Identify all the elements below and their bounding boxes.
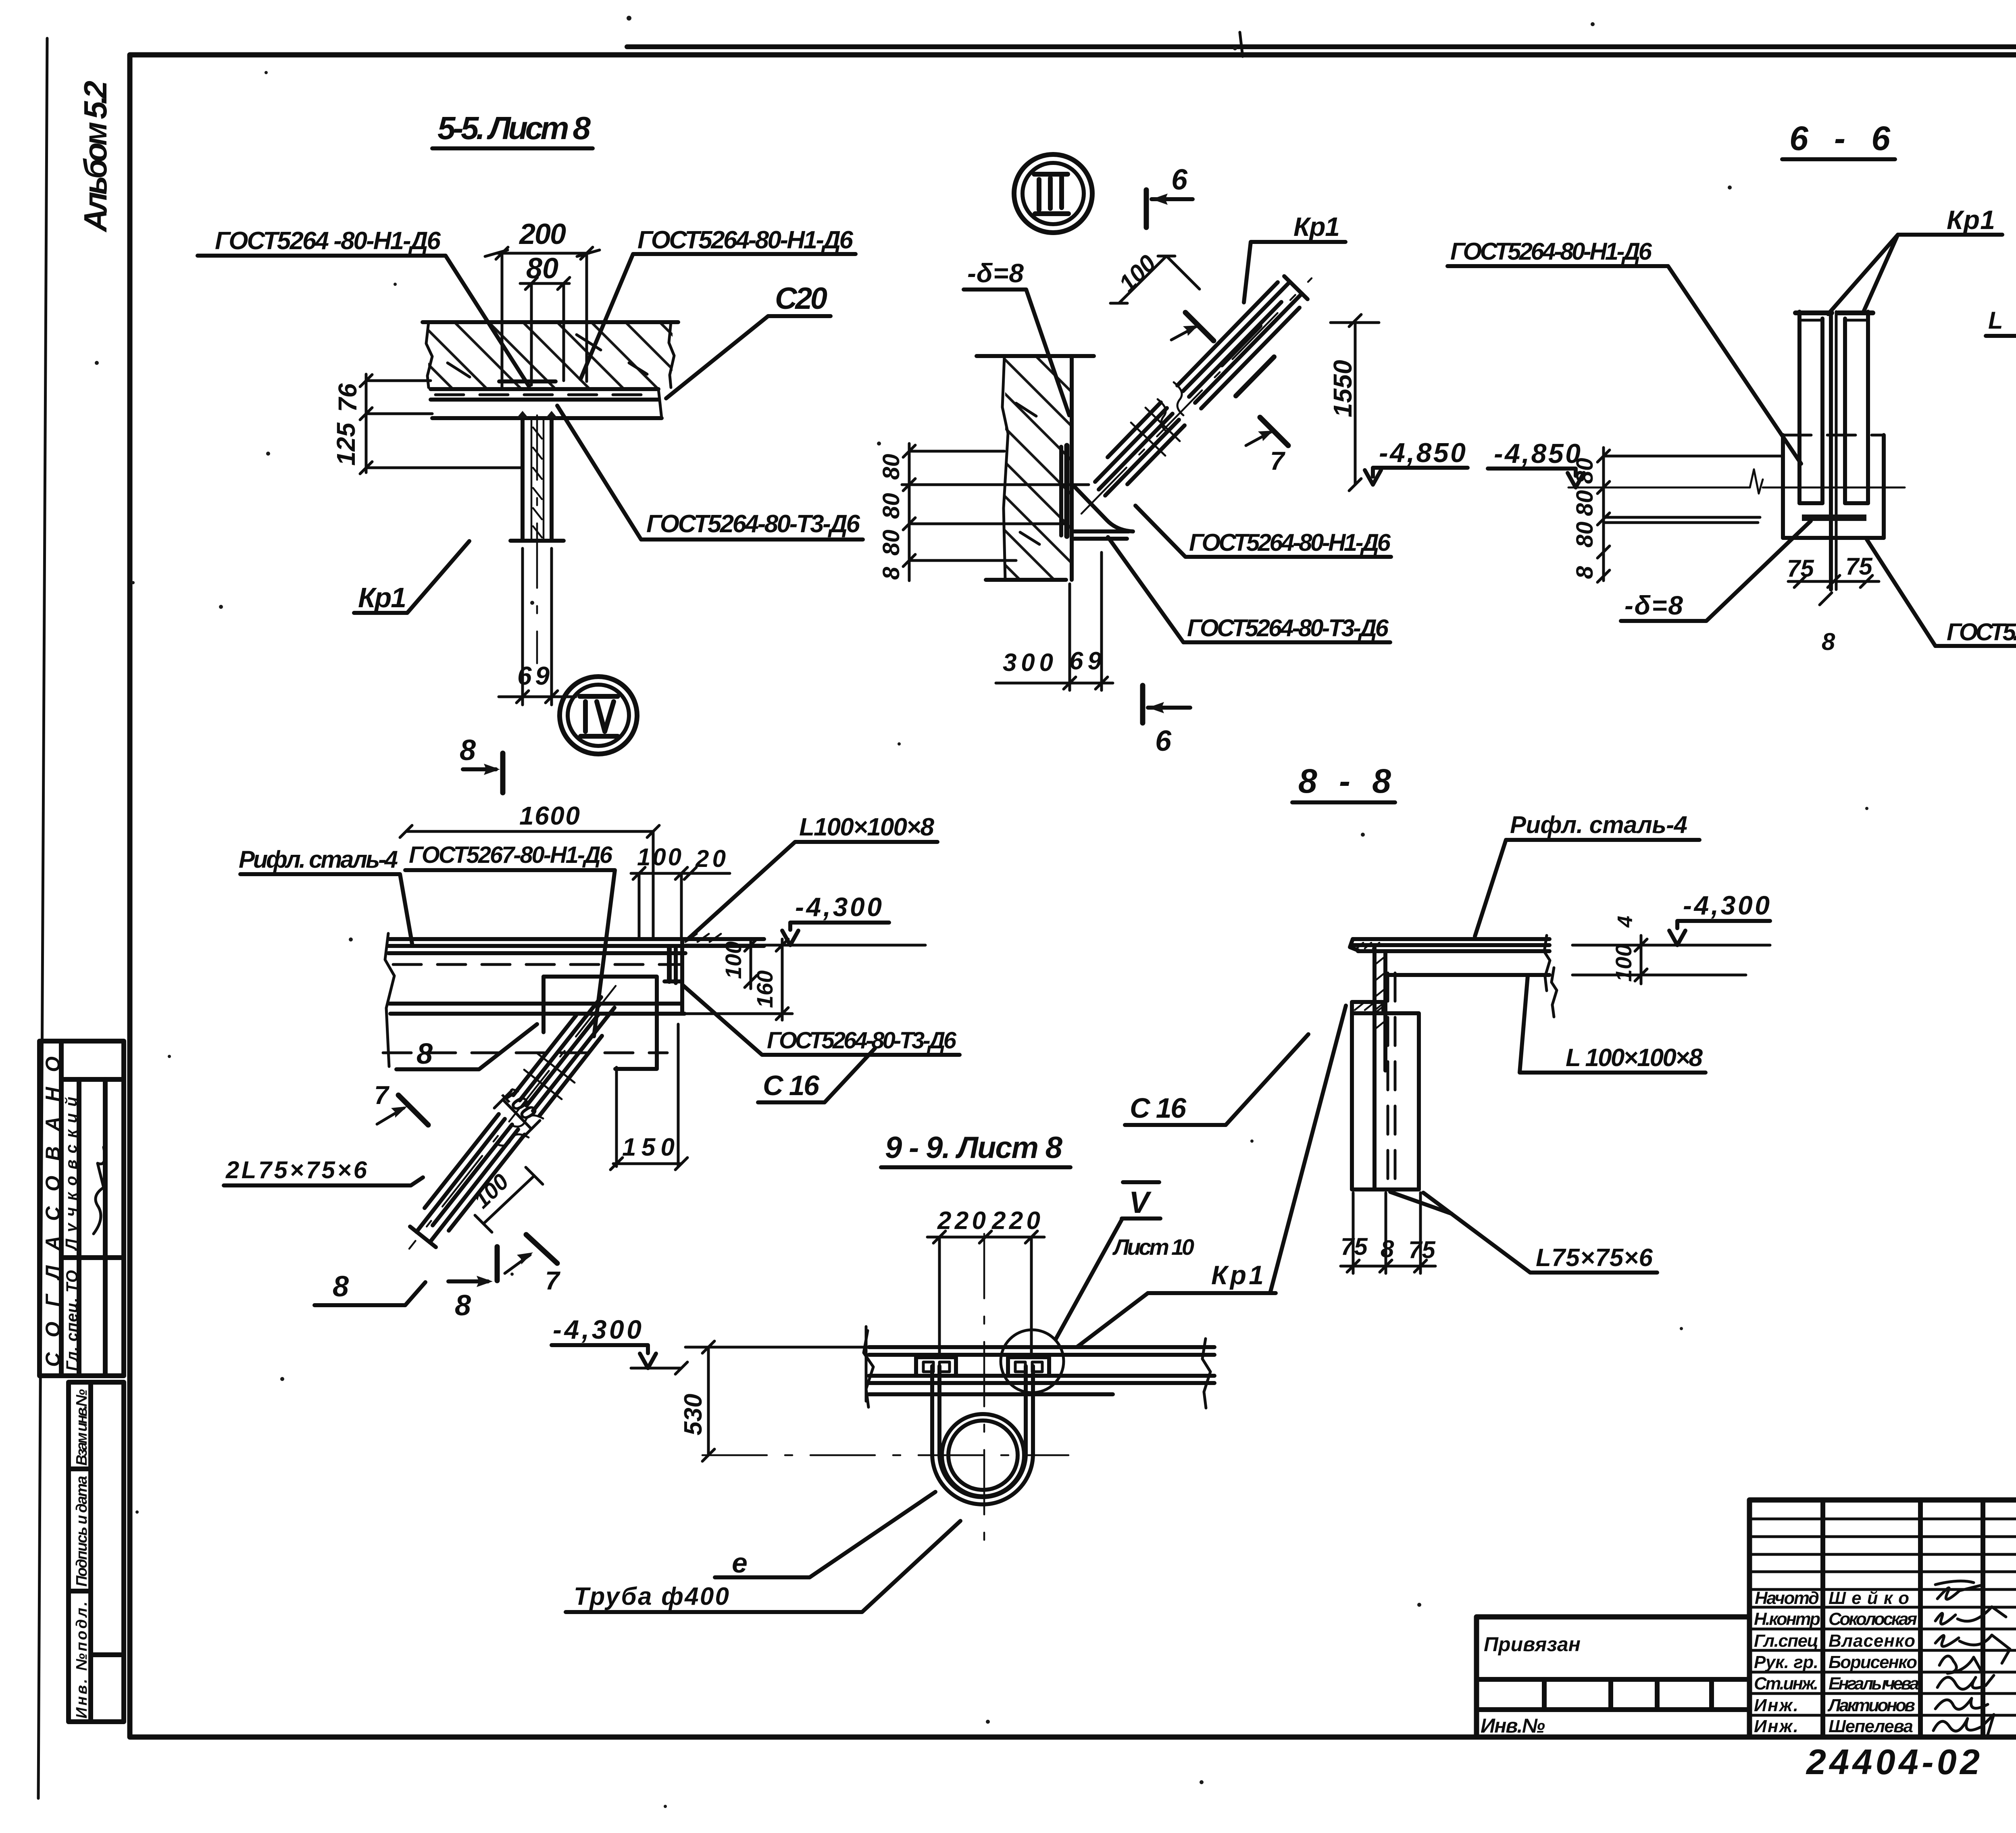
svg-text:75: 75	[1845, 553, 1873, 580]
section cut 7 lower on brace III	[1246, 417, 1288, 475]
svg-text:-δ=8: -δ=8	[967, 258, 1024, 288]
svg-text:160: 160	[752, 971, 777, 1008]
svg-text:125: 125	[331, 422, 360, 466]
label С16 of IV	[758, 1048, 875, 1102]
label C20	[666, 281, 831, 398]
svg-text:80: 80	[1572, 521, 1598, 548]
level mark -4,850 of III	[1365, 437, 1468, 485]
channel pair 6-6	[1795, 312, 1873, 503]
dimension 220 220	[927, 1207, 1044, 1355]
handwritten numbers below title block	[1806, 1742, 2016, 1807]
svg-text:6 - 6: 6 - 6	[1789, 119, 1891, 157]
dimension 160 right of IV	[685, 939, 792, 1020]
svg-text:-4,850: -4,850	[1379, 437, 1466, 468]
U-bolt 9-9	[932, 1366, 1033, 1504]
label ГОСТ5267-80-Н1-Д6	[405, 842, 615, 1036]
svg-text:100: 100	[1611, 944, 1636, 982]
brace IV 2L75x75x6 member	[409, 986, 616, 1249]
floor plate 5-5	[431, 381, 662, 418]
label Кр1 of III	[1244, 212, 1345, 302]
end angle bracket IV	[664, 934, 721, 983]
section title 9-9 Лист 8	[881, 1131, 1070, 1167]
svg-text:8: 8	[1572, 566, 1598, 579]
dimension 80 80 80 8 left of III	[878, 444, 1089, 581]
label ГОСТ5264-80-Н1-Д6 left	[198, 227, 529, 386]
gusset plate IV	[544, 977, 657, 1069]
svg-text:6: 6	[1171, 164, 1188, 196]
section cut mark 6 bottom	[1143, 685, 1190, 757]
svg-text:220: 220	[991, 1207, 1040, 1235]
svg-text:1550: 1550	[1328, 360, 1357, 417]
pipe clamp clips 9-9	[916, 1357, 1049, 1376]
album label "Альбом 5.2" rotated	[77, 81, 113, 233]
svg-text:75: 75	[1408, 1236, 1436, 1263]
svg-text:ГОСТ5264-80-Н1-Д6: ГОСТ5264-80-Н1-Д6	[637, 226, 854, 254]
svg-text:С20: С20	[775, 281, 827, 316]
dimension 100 of 8-8	[1611, 935, 1641, 984]
dimension 1550 right of III	[1328, 315, 1379, 491]
svg-text:8: 8	[417, 1038, 433, 1070]
left stamp box Инв/Подпись	[69, 1382, 124, 1722]
svg-text:Труба ф400: Труба ф400	[574, 1583, 729, 1610]
svg-text:С 16: С 16	[763, 1070, 820, 1101]
label -δ=8 of 6-6	[1621, 521, 1811, 621]
label Труба ф400	[566, 1521, 960, 1612]
svg-text:Енгалычева: Енгалычева	[1829, 1674, 1919, 1693]
svg-text:-4,300: -4,300	[553, 1314, 641, 1344]
svg-text:150: 150	[622, 1133, 675, 1161]
svg-text:Привязан: Привязан	[1484, 1633, 1581, 1656]
svg-text:80: 80	[526, 252, 558, 285]
concrete slab hatched 5-5	[423, 322, 678, 387]
upper 8 leader line	[396, 1024, 537, 1070]
section cut mark 6 top	[1146, 164, 1193, 227]
svg-text:-4,300: -4,300	[795, 892, 882, 922]
platform member IV	[383, 933, 764, 1066]
top paper edge double line	[627, 44, 2016, 49]
label ГОСТ5264-80-Н1-Д6 of 6-6	[1447, 238, 1801, 464]
svg-text:75: 75	[1787, 555, 1814, 582]
svg-text:Соколоская: Соколоская	[1829, 1609, 1917, 1629]
label ГОСТ5264-80-Т3-Д6	[557, 406, 863, 539]
label Кр1 shared	[1077, 1006, 1346, 1347]
svg-text:6: 6	[1155, 725, 1172, 757]
section cut mark 8 lower-left label	[314, 1271, 425, 1305]
dimension 150	[610, 1024, 687, 1170]
svg-text:Рифл. сталь-4: Рифл. сталь-4	[239, 846, 398, 873]
label Рифл.сталь-4 of 8-8	[1475, 811, 1699, 936]
level mark -4,300 of 8-8	[1572, 890, 1770, 975]
svg-text:2L75×75×6: 2L75×75×6	[225, 1156, 367, 1183]
detail marker V with Лист 10	[1056, 1182, 1194, 1339]
svg-text:V: V	[1129, 1185, 1152, 1220]
detail marker circle IV	[560, 677, 637, 754]
label ГОСТ5264-80-Н1-Д6 of III	[1135, 506, 1391, 557]
label е of 9-9	[715, 1492, 935, 1579]
svg-text:L 100×100×8: L 100×100×8	[1566, 1044, 1703, 1072]
svg-text:е: е	[732, 1547, 748, 1579]
svg-text:8: 8	[878, 567, 904, 580]
scan artifact tick top centre	[1240, 32, 1243, 56]
bottom plate thick 6-6	[1802, 514, 1866, 521]
svg-text:100: 100	[637, 844, 681, 871]
label L100x100x8 of 8-8	[1520, 976, 1706, 1073]
section title 8-8	[1292, 762, 1395, 802]
section cut mark 8 upper	[460, 734, 503, 793]
embedded plate III	[1061, 446, 1067, 536]
label L75x75x6 of 8-8	[1390, 1192, 1657, 1273]
dimension stack 80 80 80 8 of 6-6	[1572, 448, 1610, 582]
svg-text:7: 7	[1270, 446, 1286, 475]
svg-text:ГОСТ5264-80-Т3-Д6: ГОСТ5264-80-Т3-Д6	[1947, 619, 2016, 646]
svg-text:Альбом 5.2: Альбом 5.2	[77, 81, 113, 233]
svg-text:8: 8	[455, 1289, 471, 1322]
label ГОСТ5264-80-Т3-Д6 of 6-6	[1867, 539, 2016, 646]
label С16 of 8-8	[1125, 1034, 1308, 1125]
dimensions 300 69 of III	[996, 552, 1113, 690]
label Кр1 of 6-6	[1828, 205, 2002, 314]
detail circle on right clip	[1001, 1330, 1064, 1393]
left stamp box СОГЛАСОВАНО	[40, 1041, 124, 1376]
dimension 100 on brace III	[1110, 250, 1200, 303]
svg-text:8: 8	[1822, 628, 1835, 655]
dimension 1600	[400, 801, 659, 939]
svg-text:L100×100×8: L100×100×8	[799, 813, 935, 841]
svg-text:Гл. спец. ТО: Гл. спец. ТО	[63, 1270, 81, 1371]
svg-text:80: 80	[1572, 490, 1598, 516]
label ГОСТ5264-80-Н1-Д6 right	[581, 226, 856, 379]
concrete wall hatched III	[977, 356, 1094, 580]
detail marker circle III	[1014, 154, 1092, 233]
central plate 6-6	[1831, 312, 1836, 589]
section title 5-5 Лист 8	[432, 110, 593, 148]
level mark -4,300 of IV	[685, 892, 925, 945]
svg-text:8: 8	[333, 1271, 349, 1303]
level mark -4,850 of 6-6	[1488, 438, 1584, 487]
svg-text:Н.контр: Н.контр	[1754, 1609, 1820, 1629]
dimension 69 bottom	[499, 548, 576, 705]
svg-text:80: 80	[878, 493, 904, 519]
svg-text:ГОСТ5264-80-Т3-Д6: ГОСТ5264-80-Т3-Д6	[767, 1027, 957, 1054]
svg-text:Шепелева: Шепелева	[1829, 1716, 1913, 1736]
section cut mark 8 bottom-center	[448, 1247, 497, 1322]
dimension 100 right of IV	[721, 939, 757, 989]
dimension 100 lower on brace IV	[469, 1167, 543, 1232]
svg-text:5-5. Лист 8: 5-5. Лист 8	[437, 110, 591, 146]
label ГОСТ5264-80-Т3-Д6 of III	[1108, 537, 1390, 642]
label L75x75x6	[1986, 307, 2016, 450]
svg-text:9 - 9. Лист 8: 9 - 9. Лист 8	[885, 1131, 1063, 1165]
svg-text:76: 76	[333, 383, 362, 412]
dimension 75 8 75 of 8-8	[1341, 1193, 1436, 1273]
label L100x100x8	[687, 813, 937, 939]
svg-text:ГОСТ5264-80-Т3-Д6: ГОСТ5264-80-Т3-Д6	[1187, 614, 1389, 642]
label -δ=8 of III	[964, 258, 1069, 415]
section cut 7 upper on brace III	[1171, 312, 1214, 341]
svg-text:Инж.: Инж.	[1754, 1716, 1798, 1736]
svg-text:Лактионов: Лактионов	[1827, 1696, 1915, 1715]
pipe circles 9-9	[942, 1414, 1024, 1496]
axis line 6-6	[1568, 469, 1905, 494]
label ГОСТ5264-80-Т3-Д6 of IV	[682, 985, 960, 1055]
svg-text:ГОСТ5267-80-Н1-Д6: ГОСТ5267-80-Н1-Д6	[409, 842, 613, 868]
svg-text:8: 8	[460, 734, 476, 767]
label Кр1 of 5-5	[354, 541, 469, 613]
svg-text:80: 80	[878, 454, 904, 480]
svg-text:Инв.№: Инв.№	[1481, 1714, 1545, 1737]
svg-text:Власенко: Власенко	[1829, 1631, 1915, 1651]
dimension 530	[679, 1341, 869, 1461]
level mark -4,300 of 9-9	[552, 1314, 687, 1374]
dimension 80 top	[520, 252, 570, 385]
T-stem member 5-5	[510, 411, 564, 663]
signatures squiggles	[1933, 1581, 2010, 1735]
svg-text:-δ=8: -δ=8	[1624, 590, 1683, 620]
dimension 4 small of 8-8	[1614, 916, 1647, 981]
dimensions 76 and 125 left	[331, 374, 521, 474]
title block names column	[1754, 1588, 1919, 1736]
label Рифл.сталь-4	[239, 846, 412, 944]
svg-text:ГОСТ5264-80-Н1-Д6: ГОСТ5264-80-Н1-Д6	[1450, 238, 1652, 265]
paper edge line left	[38, 38, 47, 1798]
title block grid	[1749, 1500, 2016, 1737]
vertical angle member 8-8	[1375, 945, 1395, 1189]
section cut 7 lower-right of brace IV	[505, 1235, 561, 1295]
svg-text:Лист 10: Лист 10	[1112, 1234, 1194, 1260]
platform member 8-8	[1350, 935, 1557, 1017]
svg-text:7: 7	[545, 1266, 561, 1295]
section cut 7 upper-left of brace IV	[374, 1081, 428, 1125]
svg-text:4: 4	[1614, 916, 1637, 928]
svg-text:Кр1: Кр1	[1211, 1260, 1264, 1290]
svg-text:100: 100	[721, 941, 746, 979]
svg-text:Рук. гр.: Рук. гр.	[1754, 1652, 1818, 1672]
dimensions 100 and 20	[631, 844, 730, 939]
dimension 8 bottom of 6-6	[1820, 593, 1835, 655]
svg-text:8: 8	[1381, 1235, 1394, 1262]
svg-text:24404-02: 24404-02	[1806, 1742, 1980, 1782]
svg-text:Ст.инж.: Ст.инж.	[1754, 1674, 1818, 1693]
beam box 6-6	[1783, 435, 1884, 538]
svg-text:Кр1: Кр1	[1293, 212, 1340, 242]
dimension 75 75 of 6-6	[1787, 553, 1879, 587]
svg-text:Борисенко: Борисенко	[1829, 1652, 1917, 1672]
svg-text:Кр1: Кр1	[358, 582, 406, 613]
привязан box	[1477, 1617, 1749, 1737]
node bent plate III	[1072, 486, 1133, 539]
svg-text:ГОСТ5264-80-Т3-Д6: ГОСТ5264-80-Т3-Д6	[646, 510, 860, 538]
brace III 2L angles	[1081, 276, 1312, 514]
section title 6-6	[1782, 119, 1895, 159]
svg-text:8 - 8: 8 - 8	[1298, 762, 1391, 800]
svg-text:530: 530	[679, 1394, 707, 1435]
svg-text:300: 300	[1003, 649, 1053, 677]
extension lines 6-6	[1604, 456, 1783, 523]
centerlines 9-9	[702, 1234, 1068, 1540]
svg-text:80: 80	[878, 529, 904, 556]
platform member 9-9	[864, 1327, 1214, 1408]
svg-text:Инж.: Инж.	[1754, 1696, 1798, 1715]
svg-text:Подпись и дата: Подпись и дата	[73, 1476, 90, 1587]
svg-text:200: 200	[519, 218, 566, 250]
svg-text:7: 7	[374, 1081, 390, 1110]
svg-text:Начотд: Начотд	[1755, 1588, 1819, 1608]
label 2L75x75x6	[224, 1156, 423, 1185]
svg-text:L 75×75×6: L 75×75×6	[1988, 307, 2016, 334]
svg-text:Гл.спец: Гл.спец	[1754, 1631, 1818, 1651]
svg-text:-4,300: -4,300	[1683, 890, 1770, 920]
svg-text:Взам инв.№: Взам инв.№	[73, 1389, 90, 1466]
svg-text:Кр1: Кр1	[1947, 205, 1995, 235]
hanging plate 8-8	[1352, 1002, 1419, 1189]
svg-text:ГОСТ5264-80-Н1-Д6: ГОСТ5264-80-Н1-Д6	[1189, 529, 1391, 556]
svg-text:Рифл. сталь-4: Рифл. сталь-4	[1510, 811, 1687, 838]
svg-text:L75×75×6: L75×75×6	[1536, 1244, 1653, 1272]
svg-text:ГОСТ5264 -80-Н1-Д6: ГОСТ5264 -80-Н1-Д6	[215, 227, 441, 255]
dimension 100 upper on brace IV	[494, 1081, 542, 1137]
dimension 200	[485, 218, 600, 387]
svg-text:-4,850: -4,850	[1494, 438, 1581, 469]
svg-text:С 16: С 16	[1130, 1092, 1187, 1124]
